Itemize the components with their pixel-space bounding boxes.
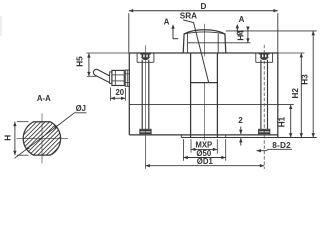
dim OD1 ext left	[145, 137, 147, 169]
bolt counterbore	[136, 53, 138, 62]
body left edge	[128, 53, 130, 135]
dim H4 line	[247, 27, 249, 43]
dome top ext line long	[226, 30, 317, 32]
section hatching	[0, 115, 130, 160]
dim H2 line	[300, 53, 302, 138]
svg-text:H4: H4	[236, 30, 245, 41]
body top edge	[129, 52, 277, 54]
dim 20 line	[110, 97, 125, 99]
svg-text:ØD1: ØD1	[197, 157, 214, 166]
svg-text:20: 20	[115, 88, 124, 97]
section arrow A right	[236, 26, 238, 35]
dim 2 line	[240, 127, 242, 135]
svg-text:H: H	[3, 135, 12, 141]
svg-text:2: 2	[238, 116, 243, 125]
boss step right	[225, 135, 227, 138]
bolt head	[259, 53, 270, 55]
dim H line	[14, 122, 16, 156]
svg-text:H3: H3	[300, 74, 309, 85]
bolt counterbore	[255, 53, 257, 62]
dome inner arc	[184, 32, 225, 34]
column centerline lower	[204, 83, 206, 141]
column left wall	[190, 53, 192, 138]
bolt shank	[141, 60, 143, 130]
boss step left	[180, 135, 182, 138]
section arrow A left	[172, 26, 174, 39]
svg-text:A-A: A-A	[37, 94, 51, 103]
svg-text:H2: H2	[291, 88, 300, 99]
cable stub	[93, 69, 109, 82]
dim H3 line	[312, 31, 314, 138]
dim D line	[129, 10, 278, 12]
svg-text:A: A	[239, 15, 245, 24]
svg-text:D: D	[201, 2, 207, 11]
body right edge	[277, 53, 279, 138]
svg-text:SRA: SRA	[180, 12, 197, 21]
dim 20 ext lines	[109, 88, 111, 101]
body bottom line	[129, 134, 277, 136]
dim D ext right / body right edge upper	[277, 13, 279, 53]
gland entry ring	[110, 72, 112, 84]
dome inner vertical left	[186, 34, 188, 53]
dim O50 line	[183, 157, 225, 159]
dim O50 ext lines	[182, 139, 184, 161]
scan artifact	[0, 16, 2, 36]
dim MXP ext lines	[190, 139, 192, 152]
dim H5 ext bottom	[87, 75, 97, 77]
dim H5 line	[88, 53, 90, 76]
dim OD1 line	[146, 165, 265, 167]
dim MXP line	[191, 148, 217, 150]
svg-text:H1: H1	[278, 116, 287, 127]
body top ext right	[278, 52, 305, 54]
dim H ext lines	[17, 121, 29, 123]
boss bottom line + H dims ext	[181, 137, 316, 139]
bolt tip	[140, 129, 151, 135]
column rod bottom	[191, 82, 218, 84]
svg-text:8-D2: 8-D2	[272, 141, 291, 150]
section centerline vertical	[41, 113, 43, 163]
dome inner vertical right	[217, 34, 219, 53]
dim OJ leader	[15, 113, 87, 159]
svg-text:ØJ: ØJ	[76, 104, 86, 113]
dim D ext left	[128, 13, 130, 52]
bolt centerline	[263, 45, 265, 169]
load button dome outline	[183, 30, 226, 53]
SRA leader	[183, 20, 208, 82]
bolt tip	[259, 129, 270, 135]
svg-text:H5: H5	[75, 56, 84, 67]
8-D2 leader	[257, 149, 293, 150]
svg-text:A: A	[164, 17, 170, 26]
bolt centerline	[145, 45, 147, 137]
dome chord line / H4 ext bottom	[187, 42, 250, 44]
column right wall	[216, 53, 218, 138]
bolt shank	[260, 60, 262, 130]
section centerline horizontal	[17, 137, 69, 139]
gland nut	[112, 70, 124, 85]
dim H1 line	[290, 105, 292, 138]
dim H5 ext top	[87, 52, 130, 54]
gland collar	[125, 70, 129, 86]
body internal step line + H1 ext	[129, 104, 293, 106]
dome centerline upper	[204, 24, 206, 57]
bolt head	[140, 53, 151, 55]
